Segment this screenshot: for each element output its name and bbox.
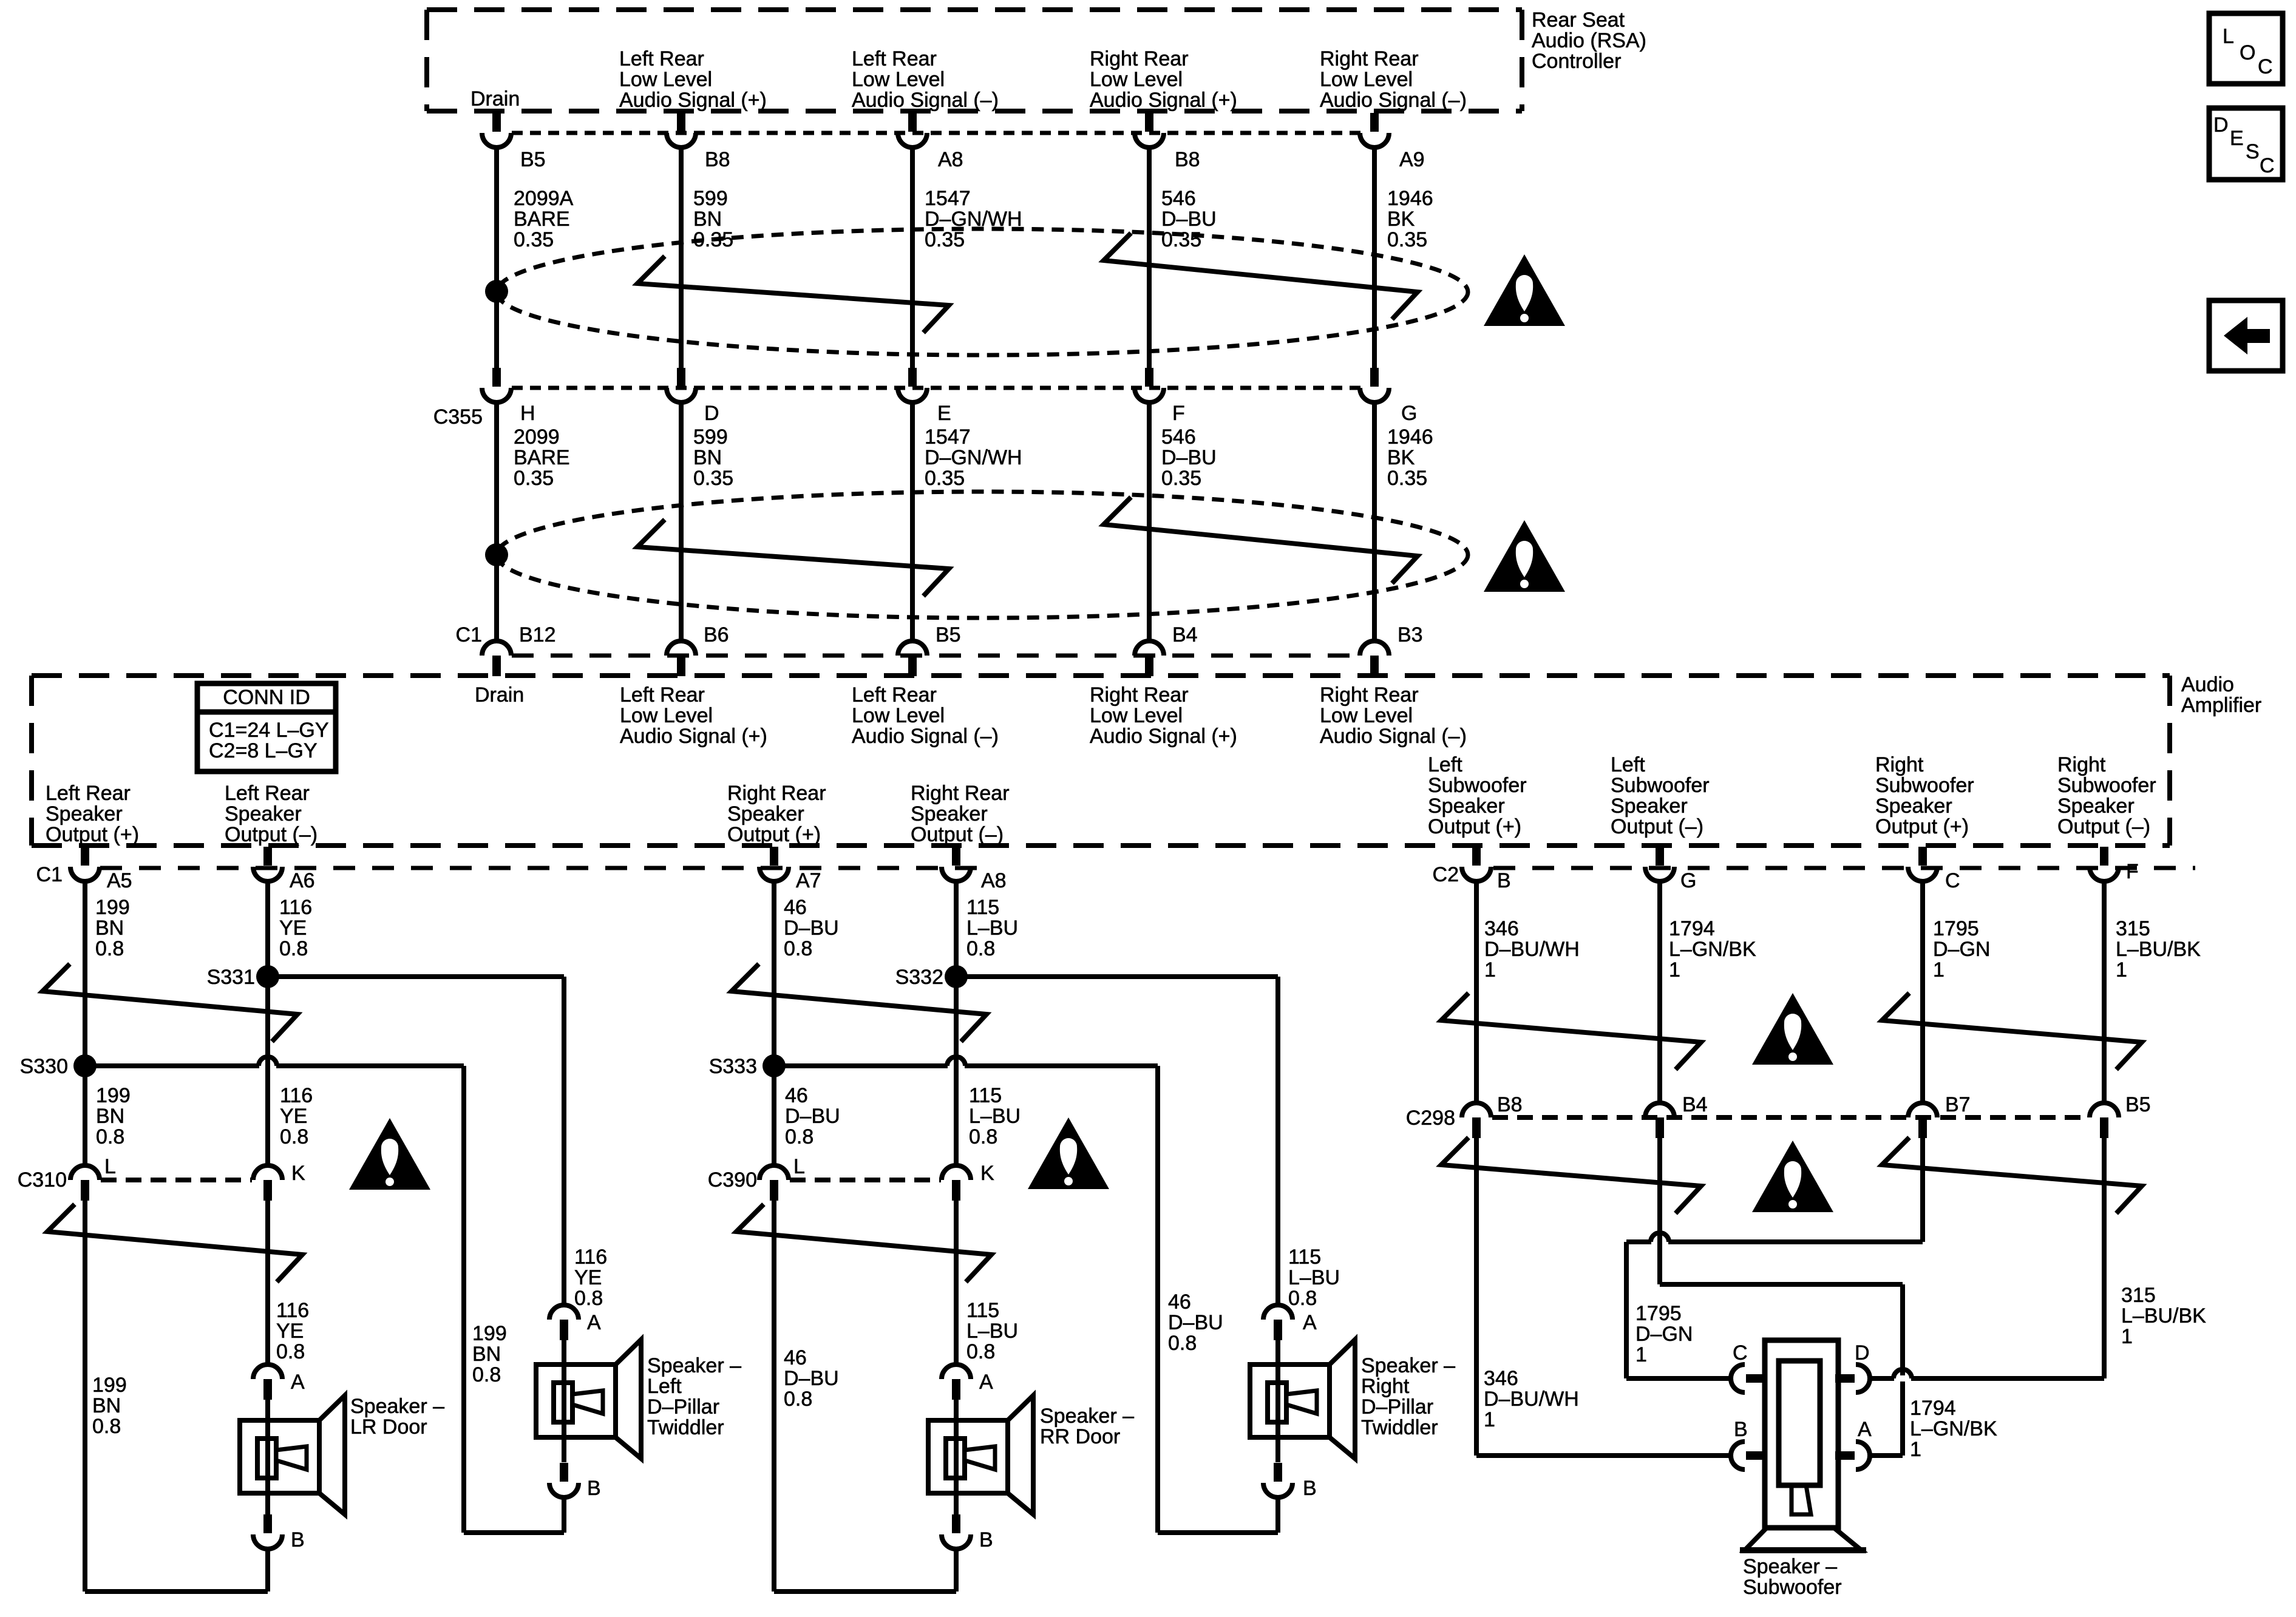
C2 pin G connector xyxy=(1656,847,1664,866)
splice dot on drain (upper shield) xyxy=(485,280,508,303)
svg-text:1: 1 xyxy=(2121,1325,2133,1348)
svg-text:D–Pillar: D–Pillar xyxy=(1361,1395,1433,1419)
svg-text:1946: 1946 xyxy=(1387,425,1433,449)
C310 pin K connector xyxy=(253,1165,282,1180)
svg-text:Output (+): Output (+) xyxy=(1428,815,1521,838)
svg-text:Left Rear: Left Rear xyxy=(619,47,704,70)
back-arrow legend box xyxy=(2209,300,2283,371)
C1 pin A5 connector xyxy=(81,847,89,866)
svg-text:A7: A7 xyxy=(796,869,821,892)
svg-text:G: G xyxy=(1680,869,1696,892)
C355 pin E connector xyxy=(908,368,917,387)
svg-text:Speaker: Speaker xyxy=(911,802,988,825)
svg-text:S332: S332 xyxy=(895,966,943,989)
svg-text:346: 346 xyxy=(1484,917,1519,940)
svg-text:Output (–): Output (–) xyxy=(2057,815,2150,838)
svg-text:G: G xyxy=(1401,402,1417,425)
svg-text:Left: Left xyxy=(647,1375,682,1398)
RSA pin B8 connector xyxy=(677,113,685,132)
svg-text:0.35: 0.35 xyxy=(1387,467,1427,490)
amp pin B6 connector xyxy=(667,641,696,656)
svg-text:0.8: 0.8 xyxy=(784,1388,812,1411)
splice S332 xyxy=(945,965,968,988)
svg-text:C2: C2 xyxy=(1433,863,1459,886)
svg-text:Amplifier: Amplifier xyxy=(2181,694,2261,717)
svg-text:Left: Left xyxy=(1428,753,1462,776)
speaker Right D-Pillar Twiddler pin B connector xyxy=(1275,1437,1280,1462)
svg-text:599: 599 xyxy=(693,187,728,210)
svg-text:116: 116 xyxy=(574,1246,607,1269)
svg-text:Right: Right xyxy=(1361,1375,1410,1398)
svg-text:Right Rear: Right Rear xyxy=(1090,47,1189,70)
svg-text:Rear Seat: Rear Seat xyxy=(1532,8,1625,32)
svg-text:D–BU: D–BU xyxy=(1168,1311,1223,1334)
svg-text:Speaker –: Speaker – xyxy=(647,1354,741,1377)
svg-text:D–GN/WH: D–GN/WH xyxy=(925,446,1022,469)
speaker Right D-Pillar Twiddler xyxy=(1275,1340,1280,1364)
svg-text:0.8: 0.8 xyxy=(280,1125,308,1148)
svg-text:115: 115 xyxy=(966,1299,999,1322)
svg-text:BARE: BARE xyxy=(514,446,570,469)
svg-text:1795: 1795 xyxy=(1635,1302,1682,1325)
svg-text:Subwoofer: Subwoofer xyxy=(1611,774,1710,797)
svg-text:YE: YE xyxy=(280,1105,307,1128)
warning triangle (lower) xyxy=(1484,520,1565,592)
svg-text:C: C xyxy=(2258,55,2273,78)
svg-text:C: C xyxy=(1945,869,1960,892)
hop of 1795 wire over 1794 wire xyxy=(1651,1239,1668,1245)
wire 199 BN below C310 xyxy=(83,1201,87,1592)
wire 346 below C298 xyxy=(1474,1138,1479,1456)
svg-text:YE: YE xyxy=(276,1320,304,1343)
splice dot on drain (lower shield) xyxy=(485,543,508,566)
svg-text:115: 115 xyxy=(966,896,999,919)
wire 116 YE (A6 down) xyxy=(265,880,270,1165)
svg-text:B4: B4 xyxy=(1172,623,1198,646)
svg-text:Speaker –: Speaker – xyxy=(1743,1555,1837,1578)
svg-text:Drain: Drain xyxy=(475,683,524,707)
svg-text:B5: B5 xyxy=(936,623,961,646)
svg-text:Right: Right xyxy=(2057,753,2106,776)
svg-text:1: 1 xyxy=(2116,958,2127,981)
svg-text:A: A xyxy=(587,1311,601,1334)
svg-text:A9: A9 xyxy=(1399,148,1425,171)
svg-text:Audio Signal (+): Audio Signal (+) xyxy=(1090,725,1237,748)
svg-text:46: 46 xyxy=(784,896,807,919)
C390 pin K connector xyxy=(942,1165,971,1180)
speaker Right D-Pillar Twiddler pin A connector xyxy=(1263,1305,1292,1320)
splice S331 horizontal wire xyxy=(268,974,564,979)
svg-text:L–GN/BK: L–GN/BK xyxy=(1910,1417,1997,1440)
svg-text:Speaker –: Speaker – xyxy=(350,1395,444,1418)
svg-text:Subwoofer: Subwoofer xyxy=(1743,1576,1842,1599)
wire 1795 below C298 (B7 to subwoofer C) xyxy=(1920,1138,1925,1242)
svg-text:Output (+): Output (+) xyxy=(1875,815,1969,838)
svg-text:D: D xyxy=(704,402,719,425)
speaker RR Door xyxy=(954,1400,959,1420)
svg-text:D: D xyxy=(1855,1341,1870,1364)
speaker Subwoofer pin B connector xyxy=(1731,1442,1745,1470)
interrupt symbol on rear pair (lower left) xyxy=(47,1204,302,1282)
svg-text:Speaker: Speaker xyxy=(46,802,123,825)
svg-text:0.8: 0.8 xyxy=(1288,1287,1317,1310)
RSA pin B5 connector xyxy=(492,113,501,132)
C355 pin F connector xyxy=(1145,368,1153,387)
svg-text:B8: B8 xyxy=(705,148,730,171)
svg-text:1547: 1547 xyxy=(925,187,971,210)
Audio Amplifier box xyxy=(32,673,2170,678)
svg-text:46: 46 xyxy=(784,1346,807,1369)
svg-text:Speaker: Speaker xyxy=(727,802,804,825)
svg-text:1: 1 xyxy=(1484,958,1496,981)
svg-text:BN: BN xyxy=(693,446,722,469)
svg-text:L: L xyxy=(793,1155,805,1178)
svg-text:B: B xyxy=(291,1528,305,1551)
wire 346 D-BU/WH (B down) xyxy=(1474,880,1479,1103)
svg-text:Drain: Drain xyxy=(470,87,520,110)
speaker Subwoofer pin C connector xyxy=(1731,1364,1745,1392)
svg-text:L–GN/BK: L–GN/BK xyxy=(1669,938,1756,961)
RSA pin A8 connector xyxy=(908,113,917,132)
svg-text:B: B xyxy=(1734,1418,1748,1441)
svg-text:F: F xyxy=(2126,860,2139,883)
interrupt symbol on subwoofer pair (upper right) xyxy=(1882,993,2142,1070)
wire 46 D-BU below C390 xyxy=(772,1201,776,1592)
svg-text:Left Rear: Left Rear xyxy=(852,683,937,707)
wire 199 BN (A5 down) xyxy=(83,880,87,1165)
svg-text:Low Level: Low Level xyxy=(1320,68,1413,91)
svg-text:C1: C1 xyxy=(456,623,482,646)
svg-text:46: 46 xyxy=(1168,1290,1191,1314)
svg-text:D–BU: D–BU xyxy=(784,917,839,940)
svg-text:C: C xyxy=(2260,154,2275,177)
svg-text:0.8: 0.8 xyxy=(966,1340,995,1363)
svg-text:C: C xyxy=(1733,1341,1748,1364)
svg-text:BN: BN xyxy=(96,1105,124,1128)
svg-text:K: K xyxy=(980,1162,994,1185)
svg-text:B5: B5 xyxy=(2125,1093,2151,1116)
interrupt symbol in lower ellipse (right pair) xyxy=(1104,497,1418,583)
C298 pin B5 connector xyxy=(2090,1103,2119,1117)
svg-text:Audio Signal (+): Audio Signal (+) xyxy=(620,725,767,748)
wire 599 BN (C355 D to amp B6) xyxy=(679,401,684,642)
svg-text:C1=24 L–GY: C1=24 L–GY xyxy=(209,719,329,742)
svg-text:B6: B6 xyxy=(704,623,729,646)
svg-text:B8: B8 xyxy=(1175,148,1200,171)
svg-text:L–BU: L–BU xyxy=(1288,1266,1340,1289)
connector C390 dashed line xyxy=(790,1178,941,1182)
C2 pin F connector xyxy=(2100,847,2108,866)
svg-text:116: 116 xyxy=(280,1084,313,1107)
svg-text:Left: Left xyxy=(1611,753,1645,776)
svg-text:A6: A6 xyxy=(290,869,315,892)
svg-text:D–GN: D–GN xyxy=(1635,1323,1693,1346)
RSA pin B8 connector (right) xyxy=(1145,113,1153,132)
svg-text:D–BU: D–BU xyxy=(1161,208,1217,231)
svg-text:199: 199 xyxy=(96,1084,131,1107)
svg-text:Right Rear: Right Rear xyxy=(727,782,826,805)
svg-text:BN: BN xyxy=(693,208,722,231)
svg-text:BN: BN xyxy=(472,1343,501,1366)
svg-text:Right Rear: Right Rear xyxy=(1320,47,1419,70)
svg-text:0.8: 0.8 xyxy=(96,1125,124,1148)
wire 1946 (C355 G to amp B3) xyxy=(1372,401,1377,642)
wire drain 2099 (C355 H to amp B12) xyxy=(494,401,499,642)
splice S332 horizontal wire xyxy=(956,974,1278,979)
interrupt symbol on subwoofer pair (lower right) xyxy=(1882,1137,2142,1213)
svg-text:Speaker: Speaker xyxy=(225,802,302,825)
svg-text:199: 199 xyxy=(472,1322,507,1345)
warning triangle (subwoofer upper) xyxy=(1752,993,1833,1065)
C355 pin D connector xyxy=(677,368,685,387)
svg-text:A: A xyxy=(1303,1311,1317,1334)
wire 116 YE below C310 xyxy=(265,1201,270,1364)
svg-text:46: 46 xyxy=(785,1084,808,1107)
speaker Subwoofer body xyxy=(1765,1340,1838,1528)
svg-text:E: E xyxy=(2230,127,2244,150)
svg-text:F: F xyxy=(1172,402,1185,425)
svg-text:D–Pillar: D–Pillar xyxy=(647,1395,719,1419)
svg-text:B: B xyxy=(587,1477,601,1500)
svg-text:1795: 1795 xyxy=(1933,917,1979,940)
twisted-pair ellipse (lower) xyxy=(497,492,1468,618)
connector C310 dashed line xyxy=(101,1178,252,1182)
svg-text:0.8: 0.8 xyxy=(92,1415,121,1438)
svg-text:Low Level: Low Level xyxy=(620,704,713,727)
svg-text:0.8: 0.8 xyxy=(472,1363,501,1386)
svg-text:1: 1 xyxy=(1484,1408,1495,1431)
svg-text:B12: B12 xyxy=(519,623,556,646)
LOC legend box xyxy=(2209,13,2283,84)
svg-text:BK: BK xyxy=(1387,208,1415,231)
wire 115 L-BU below C390 xyxy=(954,1201,959,1364)
splice S330 horizontal wire xyxy=(85,1063,464,1068)
interrupt symbol on rear pair (upper right) xyxy=(732,964,987,1042)
svg-text:1946: 1946 xyxy=(1387,187,1433,210)
C298 pin B7 connector xyxy=(1908,1103,1937,1117)
svg-text:Audio Signal (–): Audio Signal (–) xyxy=(1320,89,1467,112)
svg-text:Output (+): Output (+) xyxy=(46,823,139,846)
svg-text:115: 115 xyxy=(969,1084,1002,1107)
svg-text:Speaker: Speaker xyxy=(1428,795,1505,818)
speaker LR Door pin B connector xyxy=(265,1493,270,1515)
svg-text:RR Door: RR Door xyxy=(1040,1425,1120,1448)
svg-text:Low Level: Low Level xyxy=(619,68,712,91)
svg-text:1794: 1794 xyxy=(1669,917,1715,940)
speaker Left D-Pillar Twiddler xyxy=(562,1340,566,1364)
svg-text:546: 546 xyxy=(1161,187,1196,210)
wire 46 D-BU (A7 down) xyxy=(772,880,776,1165)
C298 pin B8 connector xyxy=(1462,1103,1491,1117)
RSA output connector row dotted line xyxy=(512,131,1361,135)
svg-text:Low Level: Low Level xyxy=(1090,68,1183,91)
svg-text:O: O xyxy=(2240,41,2255,64)
svg-text:Left Rear: Left Rear xyxy=(620,683,705,707)
svg-text:D: D xyxy=(2213,114,2229,137)
svg-text:Left Rear: Left Rear xyxy=(46,782,131,805)
amp pin B12 connector xyxy=(482,641,511,656)
speaker RR Door pin A connector xyxy=(942,1364,971,1379)
svg-text:0.35: 0.35 xyxy=(1161,228,1201,251)
svg-text:Low Level: Low Level xyxy=(852,68,945,91)
svg-text:1: 1 xyxy=(1933,958,1944,981)
svg-text:L: L xyxy=(104,1155,116,1178)
svg-text:L: L xyxy=(2223,25,2234,48)
svg-text:0.35: 0.35 xyxy=(925,228,965,251)
C1 pin A8 connector xyxy=(952,847,960,866)
svg-text:Twiddler: Twiddler xyxy=(647,1416,724,1439)
svg-text:Output (–): Output (–) xyxy=(911,823,1004,846)
svg-text:0.8: 0.8 xyxy=(785,1125,813,1148)
svg-text:L–BU/BK: L–BU/BK xyxy=(2116,938,2201,961)
C390 pin L connector xyxy=(759,1165,789,1180)
wire 546 (C355 F to amp B4) xyxy=(1147,401,1152,642)
C298 pin B4 connector xyxy=(1645,1103,1674,1117)
svg-text:0.8: 0.8 xyxy=(279,937,308,960)
wire 315 L-BU/BK (F down) xyxy=(2102,880,2107,1103)
svg-text:S333: S333 xyxy=(709,1055,757,1078)
svg-text:Low Level: Low Level xyxy=(1320,704,1413,727)
svg-text:A: A xyxy=(291,1371,305,1394)
C355 pin G connector xyxy=(1370,368,1379,387)
svg-text:B: B xyxy=(1303,1477,1317,1500)
wire 1547 D-GN/WH (RSA A8 to C355 E) xyxy=(910,146,915,369)
svg-text:0.35: 0.35 xyxy=(925,467,965,490)
svg-text:D–BU: D–BU xyxy=(1161,446,1217,469)
svg-text:L–BU: L–BU xyxy=(966,917,1018,940)
Rear Seat Audio (RSA) Controller box xyxy=(427,7,1522,12)
svg-text:116: 116 xyxy=(279,896,312,919)
splice S331 xyxy=(256,965,279,988)
svg-text:S331: S331 xyxy=(207,966,255,989)
svg-text:0.8: 0.8 xyxy=(276,1340,305,1363)
svg-text:Audio (RSA): Audio (RSA) xyxy=(1532,29,1646,52)
svg-text:0.35: 0.35 xyxy=(514,228,554,251)
svg-text:Subwoofer: Subwoofer xyxy=(1428,774,1527,797)
svg-text:Audio Signal (–): Audio Signal (–) xyxy=(852,89,999,112)
svg-text:S330: S330 xyxy=(20,1055,68,1078)
svg-text:Speaker: Speaker xyxy=(1611,795,1688,818)
svg-text:Speaker –: Speaker – xyxy=(1040,1405,1134,1428)
wire 115 L-BU (A8 down) xyxy=(954,880,959,1165)
warning triangle (left rear group) xyxy=(349,1118,430,1190)
svg-text:Speaker –: Speaker – xyxy=(1361,1354,1455,1377)
svg-text:1: 1 xyxy=(1669,958,1680,981)
wire 315 below C298 (B5 to subwoofer D) xyxy=(2102,1138,2107,1378)
svg-text:546: 546 xyxy=(1161,425,1196,449)
svg-text:Speaker: Speaker xyxy=(1875,795,1952,818)
svg-text:Right Rear: Right Rear xyxy=(911,782,1010,805)
svg-text:B5: B5 xyxy=(520,148,546,171)
svg-text:Twiddler: Twiddler xyxy=(1361,1416,1438,1439)
svg-text:0.8: 0.8 xyxy=(574,1287,603,1310)
svg-text:115: 115 xyxy=(1288,1246,1321,1269)
splice S333 horizontal wire xyxy=(774,1063,1158,1068)
svg-text:1: 1 xyxy=(1910,1438,1921,1461)
svg-text:2099A: 2099A xyxy=(514,187,574,210)
svg-text:0.8: 0.8 xyxy=(784,937,812,960)
svg-text:L–BU: L–BU xyxy=(969,1105,1021,1128)
svg-text:LR Door: LR Door xyxy=(350,1415,427,1439)
svg-text:Right: Right xyxy=(1875,753,1924,776)
svg-text:Right Rear: Right Rear xyxy=(1090,683,1189,707)
warning triangle (subwoofer lower) xyxy=(1752,1141,1833,1212)
warning triangle (right rear group) xyxy=(1028,1117,1109,1189)
speaker LR Door xyxy=(265,1400,270,1420)
hop of S330 wire over 116 YE wire xyxy=(259,1063,276,1069)
svg-text:A8: A8 xyxy=(981,869,1007,892)
hop of S333 wire over 115 L-BU wire xyxy=(948,1063,965,1069)
svg-text:S: S xyxy=(2246,140,2260,163)
interrupt symbol on subwoofer pair (lower left) xyxy=(1441,1137,1701,1213)
svg-text:BN: BN xyxy=(92,1394,121,1417)
wire 546 D-BU (RSA B8 to C355 F) xyxy=(1147,146,1152,369)
svg-text:1: 1 xyxy=(1635,1343,1647,1366)
amp pin B3 connector xyxy=(1360,641,1389,656)
speaker Subwoofer pin D connector xyxy=(1856,1364,1870,1392)
svg-text:A5: A5 xyxy=(107,869,132,892)
C2 pin B connector xyxy=(1472,847,1481,866)
svg-text:599: 599 xyxy=(693,425,728,449)
svg-text:C355: C355 xyxy=(433,405,483,429)
twisted-pair ellipse (upper) xyxy=(497,229,1468,355)
svg-text:0.35: 0.35 xyxy=(1387,228,1427,251)
wire LR door B to 199 BN rail xyxy=(265,1548,270,1592)
svg-text:Subwoofer: Subwoofer xyxy=(2057,774,2156,797)
svg-text:0.8: 0.8 xyxy=(1168,1332,1197,1355)
svg-text:A: A xyxy=(979,1371,993,1394)
interrupt symbol in upper ellipse (right pair) xyxy=(1104,233,1418,319)
svg-text:0.35: 0.35 xyxy=(514,467,554,490)
wire 599 BN (RSA B8 to C355 D) xyxy=(679,146,684,369)
svg-text:L–BU/BK: L–BU/BK xyxy=(2121,1304,2206,1327)
svg-text:BN: BN xyxy=(95,917,124,940)
svg-text:A8: A8 xyxy=(938,148,963,171)
svg-text:Subwoofer: Subwoofer xyxy=(1875,774,1974,797)
connector C2 output row dotted line xyxy=(1493,866,2195,870)
svg-text:Right Rear: Right Rear xyxy=(1320,683,1419,707)
interrupt symbol on rear pair (upper left) xyxy=(42,964,297,1042)
svg-text:1794: 1794 xyxy=(1910,1397,1956,1420)
svg-text:B3: B3 xyxy=(1398,623,1423,646)
svg-text:Audio Signal (+): Audio Signal (+) xyxy=(619,89,767,112)
svg-text:B4: B4 xyxy=(1682,1093,1708,1116)
RSA pin A9 connector xyxy=(1370,113,1379,132)
svg-text:YE: YE xyxy=(574,1266,602,1289)
wire S333 branch down to right twiddler B xyxy=(1155,1066,1160,1533)
C2 pin C connector xyxy=(1918,847,1927,866)
svg-text:B: B xyxy=(1497,869,1511,892)
warning triangle (upper) xyxy=(1484,254,1565,326)
svg-text:0.8: 0.8 xyxy=(969,1125,997,1148)
svg-text:D–BU: D–BU xyxy=(784,1367,839,1390)
interrupt symbol in upper ellipse (left pair) xyxy=(637,256,949,333)
svg-text:A: A xyxy=(1858,1418,1872,1441)
C1 pin A7 connector xyxy=(770,847,778,866)
svg-text:346: 346 xyxy=(1484,1367,1518,1390)
amp pin B4 connector xyxy=(1135,641,1164,656)
svg-text:C1: C1 xyxy=(36,863,63,886)
svg-text:C298: C298 xyxy=(1406,1107,1455,1130)
connector C1 output row dotted line xyxy=(100,866,979,870)
wire 1794 below C298 (B4 to subwoofer A) xyxy=(1657,1138,1662,1284)
svg-text:D–GN: D–GN xyxy=(1933,938,1990,961)
svg-text:Audio Signal (+): Audio Signal (+) xyxy=(1090,89,1237,112)
svg-text:0.35: 0.35 xyxy=(1161,467,1201,490)
svg-text:Output (–): Output (–) xyxy=(225,823,318,846)
wire drain 2099A (RSA B5 to C355 H) xyxy=(494,146,499,369)
svg-text:K: K xyxy=(291,1162,305,1185)
